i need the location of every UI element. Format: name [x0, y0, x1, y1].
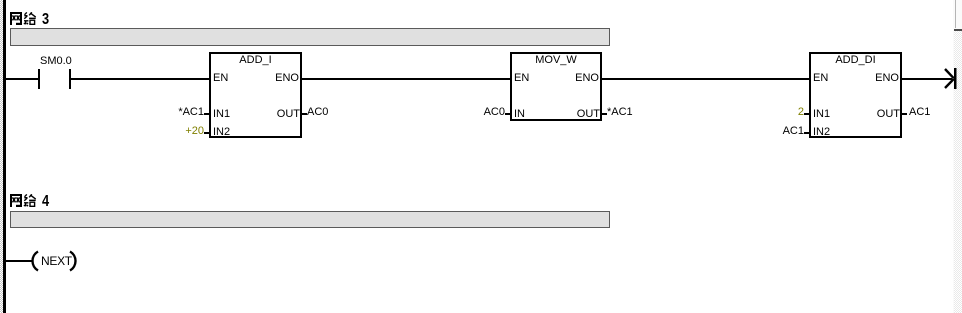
pin stub MOV_W OUT — [602, 113, 607, 115]
pin stub ADD_DI IN2 — [804, 132, 809, 134]
network 4 comment bar — [10, 211, 610, 228]
block ADD_I — [209, 52, 302, 138]
pin stub ADD_I IN2 — [204, 132, 209, 134]
network 4 header — [10, 194, 70, 207]
left pane edge dither — [0, 0, 3, 313]
operand 2 (ADD_DI IN1) — [798, 107, 804, 118]
wire: ADD_DI to continuation arrow — [902, 78, 952, 80]
operand AC1 (ADD_DI IN2) — [783, 126, 804, 137]
operand AC0 (ADD_I OUT) — [307, 107, 328, 118]
pin stub ADD_I OUT — [302, 113, 307, 115]
wire: contact to ADD_I — [71, 78, 209, 80]
network 3 comment bar — [10, 28, 610, 46]
coil NEXT — [30, 248, 82, 274]
wire: rail to NEXT coil — [6, 260, 33, 262]
pin stub ADD_I IN1 — [204, 113, 209, 115]
pin stub ADD_DI OUT — [902, 113, 907, 115]
operand *AC1 (ADD_I IN1) — [178, 107, 204, 118]
block ADD_DI — [809, 52, 902, 138]
block MOV_W — [510, 52, 602, 121]
contact SM0.0 — [36, 55, 76, 90]
operand AC1 (ADD_DI OUT) — [909, 107, 930, 118]
wire: rail to contact — [6, 78, 38, 80]
wire: MOV_W to ADD_DI — [602, 78, 809, 80]
pin stub MOV_W IN — [505, 113, 510, 115]
right scrollbar strip — [953, 0, 962, 313]
continuation arrow — [935, 60, 960, 95]
operand AC0 (MOV_W IN) — [484, 107, 505, 118]
wire: ADD_I to MOV_W — [302, 78, 510, 80]
pin stub ADD_DI IN1 — [804, 113, 809, 115]
operand *AC1 (MOV_W OUT) — [607, 107, 633, 118]
network 3 header — [10, 12, 70, 25]
left power rail — [3, 0, 6, 313]
operand +20 (ADD_I IN2) — [185, 126, 204, 137]
